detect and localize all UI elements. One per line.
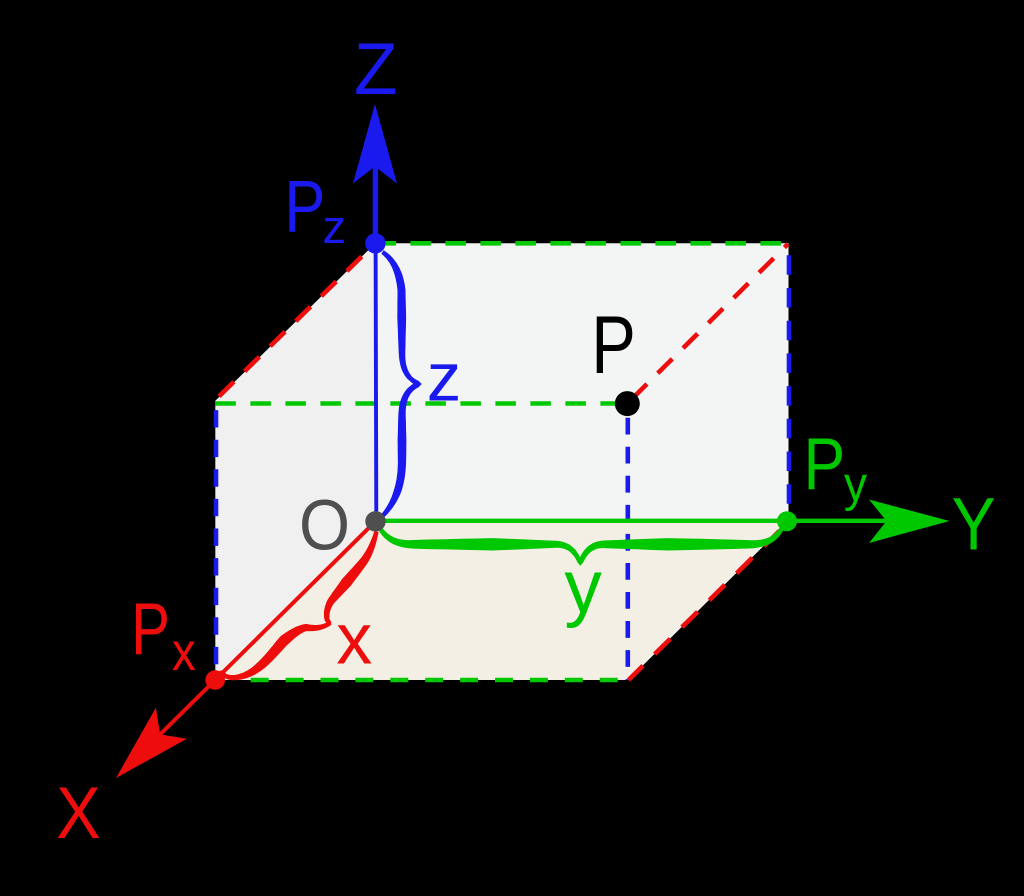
bottom face (x-y plane, beige) bbox=[215, 521, 788, 680]
solid red X axis: O through Px to arrowhead bbox=[158, 521, 376, 736]
green curly brace for y bbox=[378, 527, 783, 566]
dot Py bbox=[777, 511, 797, 531]
dashed red edge: lower-right (Py to C) bbox=[629, 522, 789, 680]
svg-text:x: x bbox=[172, 621, 196, 682]
svg-text:P: P bbox=[131, 588, 170, 670]
dot Pz bbox=[365, 233, 385, 253]
dashed green edge: bottom (A to C) bbox=[251, 678, 628, 683]
dashed blue edge: left (F to A) bbox=[214, 401, 219, 680]
Y axis arrowhead bbox=[869, 500, 950, 544]
dot Px bbox=[205, 670, 225, 690]
svg-text:Z: Z bbox=[354, 29, 398, 110]
red curly brace for x bbox=[220, 531, 379, 680]
svg-text:O: O bbox=[299, 486, 350, 565]
dashed red edge: upper-left (F to Pz) bbox=[216, 245, 374, 400]
dot O (origin) bbox=[365, 511, 385, 531]
dashed red line: interior P to E bbox=[628, 244, 788, 403]
X axis arrowhead bbox=[116, 708, 187, 778]
svg-text:z: z bbox=[427, 338, 462, 415]
svg-text:x: x bbox=[336, 599, 372, 679]
svg-text:X: X bbox=[56, 772, 101, 853]
svg-text:y: y bbox=[564, 545, 602, 629]
dashed green line: interior F to P bbox=[215, 401, 627, 406]
dot P (black point) bbox=[615, 391, 640, 416]
svg-text:y: y bbox=[844, 458, 867, 513]
dashed green edge: top (Pz to E) bbox=[375, 241, 788, 246]
dashed blue line: interior P to C bbox=[625, 404, 630, 681]
dashed blue edge: right (E to Py) bbox=[787, 243, 792, 521]
solid blue Z axis shaft: Pz up to arrowhead bbox=[373, 165, 378, 243]
Z axis arrowhead bbox=[353, 104, 397, 184]
left face (x-z plane, slightly darker gray) bbox=[215, 243, 375, 680]
svg-text:P: P bbox=[804, 423, 846, 505]
solid blue z segment: O to Pz bbox=[374, 243, 379, 521]
svg-text:P: P bbox=[284, 166, 325, 247]
svg-text:P: P bbox=[591, 298, 636, 390]
solid green Y axis: O to arrowhead bbox=[376, 519, 890, 523]
svg-text:Y: Y bbox=[952, 483, 996, 565]
box silhouette (right+top faces, light gray) bbox=[215, 243, 788, 680]
svg-text:z: z bbox=[323, 200, 347, 253]
blue curly brace for z bbox=[381, 250, 422, 517]
